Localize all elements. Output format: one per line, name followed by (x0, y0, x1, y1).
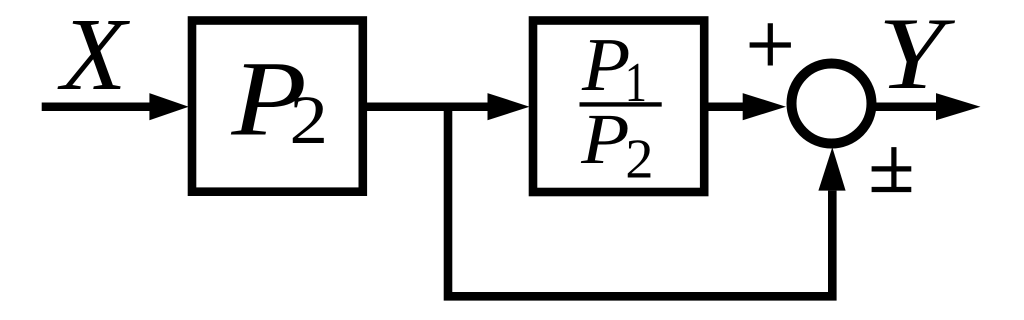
svg-text:2: 2 (289, 82, 328, 158)
output arrowhead (936, 93, 981, 120)
svg-text:X: X (57, 0, 130, 112)
block P1/P2 (533, 21, 704, 193)
svg-text:2: 2 (625, 128, 653, 190)
input arrowhead (149, 93, 188, 120)
wire P2 to P1/P2 block (362, 102, 490, 111)
svg-text:P: P (581, 22, 630, 107)
wire P1/P2 block to summing junction (704, 102, 744, 111)
plus-minus sign label (872, 147, 912, 189)
block P2 (192, 21, 363, 192)
arrowhead into P1/P2 block (488, 93, 530, 120)
summing junction circle (792, 64, 872, 144)
fraction bar (580, 102, 662, 106)
svg-text:P: P (580, 99, 629, 179)
feedback arrowhead into summing junction bottom (818, 147, 845, 190)
wire input arrow shaft into P2 (42, 102, 152, 111)
wire output from summing junction (873, 102, 940, 111)
node branch junction and feedback wire (down, right, up) (448, 107, 832, 297)
svg-text:Y: Y (878, 0, 955, 111)
plus sign label (750, 23, 791, 65)
arrowhead into summing junction left (743, 93, 786, 120)
